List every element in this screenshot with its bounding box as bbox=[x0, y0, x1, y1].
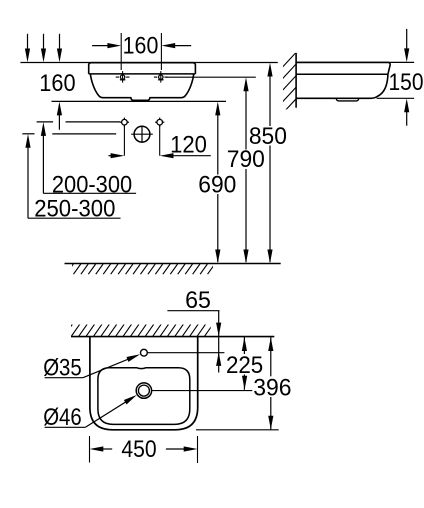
svg-text:450: 450 bbox=[121, 436, 156, 463]
svg-text:120: 120 bbox=[170, 132, 207, 159]
svg-text:150: 150 bbox=[389, 69, 424, 96]
svg-text:790: 790 bbox=[227, 146, 265, 173]
svg-text:690: 690 bbox=[198, 171, 236, 198]
svg-text:65: 65 bbox=[185, 287, 211, 314]
svg-text:200-300: 200-300 bbox=[52, 171, 132, 198]
svg-text:160: 160 bbox=[39, 70, 75, 97]
svg-text:160: 160 bbox=[123, 33, 159, 60]
svg-text:850: 850 bbox=[249, 123, 287, 150]
svg-text:396: 396 bbox=[253, 374, 291, 401]
